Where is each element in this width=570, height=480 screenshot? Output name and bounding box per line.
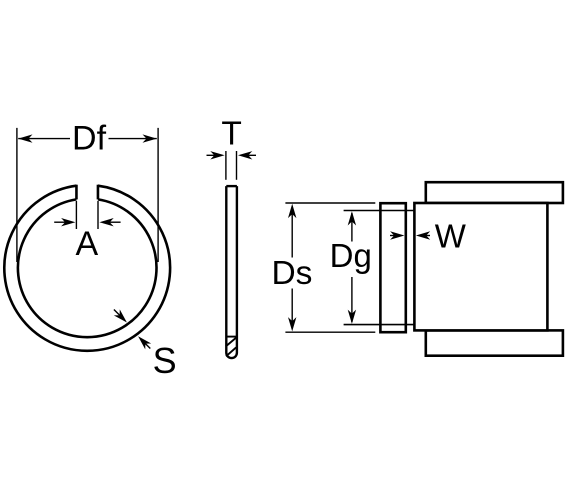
svg-text:S: S [153,340,177,381]
svg-text:T: T [221,116,241,153]
svg-text:A: A [76,225,99,263]
svg-text:Ds: Ds [271,255,312,292]
svg-text:Df: Df [72,120,107,158]
svg-text:W: W [435,218,467,255]
svg-text:Dg: Dg [330,237,372,274]
